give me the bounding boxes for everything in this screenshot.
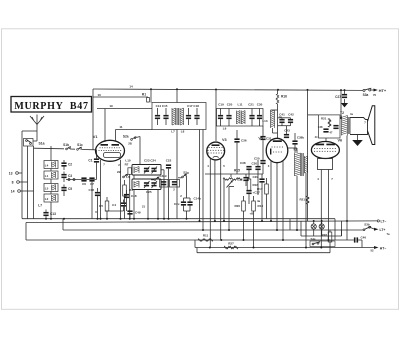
capacitor C30a	[257, 102, 263, 126]
switch S3b	[363, 222, 375, 230]
svg-text:L13: L13	[262, 119, 268, 123]
boxed capacitor C27a	[160, 174, 169, 187]
svg-text:C13: C13	[50, 212, 56, 216]
svg-text:MURPHY B47: MURPHY B47	[14, 101, 88, 112]
svg-text:52: 52	[370, 249, 374, 253]
wire bus 3	[26, 239, 354, 241]
svg-text:S2a: S2a	[123, 135, 129, 139]
wire HT- bus	[195, 240, 374, 248]
svg-text:V6: V6	[338, 139, 343, 143]
capacitor C45	[318, 125, 329, 133]
svg-text:C20: C20	[227, 102, 233, 106]
ground below speaker frame	[352, 135, 363, 147]
svg-text:R20: R20	[234, 204, 240, 208]
svg-text:R7: R7	[125, 163, 129, 167]
svg-text:C42: C42	[288, 113, 294, 117]
svg-text:R26: R26	[321, 233, 327, 237]
wire V5 grid feed	[277, 110, 279, 138]
node HT+ terminal	[373, 88, 387, 97]
svg-text:L4: L4	[45, 163, 49, 167]
svg-text:R17: R17	[257, 187, 263, 191]
svg-text:L2: L2	[45, 197, 49, 201]
wire S1a to antenna	[33, 139, 37, 142]
capacitor C29	[252, 174, 264, 221]
svg-text:C16: C16	[88, 188, 94, 192]
svg-text:R21: R21	[299, 198, 305, 202]
capacitor C16	[88, 188, 100, 219]
wire V6 grid feed	[308, 90, 327, 196]
svg-text:V1: V1	[93, 135, 98, 139]
switch S1b	[63, 143, 71, 150]
wire T2 bottom drop	[346, 136, 348, 222]
svg-text:13: 13	[9, 172, 13, 176]
wire HT top bus	[93, 89, 363, 90]
svg-text:19: 19	[109, 104, 113, 108]
wire T2 top link	[340, 117, 343, 119]
loudspeaker cone	[368, 106, 375, 145]
svg-text:C20: C20	[254, 157, 260, 161]
resistor R21	[299, 196, 308, 221]
tube V5	[258, 137, 287, 163]
switch S1c	[77, 143, 97, 150]
capacitor C49	[127, 210, 140, 218]
coil L2	[44, 194, 58, 202]
svg-text:R21: R21	[321, 117, 327, 121]
boxed capacitor C27b	[170, 180, 180, 192]
node junction dots on top bus	[150, 88, 346, 91]
wire V1 cathode legs	[101, 160, 121, 219]
wire aerial to V1	[34, 148, 76, 149]
transformer T2	[340, 111, 353, 136]
capacitor C17	[186, 108, 191, 125]
wire top bus left branch	[93, 85, 148, 97]
node C14 C15 labels	[156, 104, 168, 108]
svg-text:C6: C6	[82, 182, 86, 186]
wire chassis bus	[22, 218, 335, 220]
svg-text:S1a: S1a	[39, 142, 45, 146]
ground below C27	[341, 99, 348, 107]
switch S2b	[117, 170, 128, 178]
capacitor C15	[163, 108, 168, 125]
wire lamp bus	[301, 221, 342, 236]
IF transformer T3 box	[152, 103, 206, 130]
svg-text:R15: R15	[234, 169, 240, 173]
wire left vertical 2	[27, 146, 29, 219]
terminal 13	[9, 172, 22, 176]
node LT+ terminal	[374, 228, 390, 236]
node L7 label	[38, 204, 42, 208]
svg-text:C21: C21	[248, 102, 254, 106]
tube V6 base	[318, 159, 333, 248]
wire aerial top link	[22, 131, 37, 146]
IF transformer T4 box	[217, 109, 264, 127]
svg-text:T2: T2	[340, 111, 344, 115]
oscillator box L10 C23 C24	[125, 159, 161, 175]
svg-text:R5: R5	[99, 204, 103, 208]
svg-text:C2c: C2c	[174, 202, 180, 206]
svg-text:S3b: S3b	[364, 222, 370, 226]
wire V3 anode feed	[215, 90, 217, 142]
resistor R5	[99, 197, 109, 219]
svg-text:L1: L1	[45, 174, 49, 178]
svg-text:C14 C15: C14 C15	[156, 104, 168, 108]
coil L1	[44, 171, 58, 179]
capacitor C32	[237, 174, 249, 186]
tube V1	[93, 135, 125, 161]
resistor R24	[321, 117, 331, 128]
capacitor C5	[61, 185, 72, 197]
wire antenna stem	[36, 133, 38, 139]
switch S3a	[363, 88, 374, 97]
switch S1a	[24, 139, 45, 147]
svg-text:C5: C5	[68, 187, 72, 191]
svg-text:L9: L9	[223, 127, 227, 131]
capacitor C14b	[184, 197, 202, 219]
wire bus 5	[197, 248, 330, 253]
wire V6 anode to T2	[340, 90, 342, 119]
svg-text:S2g: S2g	[183, 171, 189, 175]
capacitor C41	[279, 113, 285, 124]
wire IFT1 core drop	[176, 89, 178, 218]
wire left vertical 3	[33, 146, 35, 219]
svg-text:C30: C30	[257, 102, 263, 106]
svg-text:R27: R27	[228, 242, 234, 246]
terminal 14	[11, 190, 34, 194]
wire LT+ bus	[63, 219, 363, 230]
tube V3	[207, 138, 227, 160]
wire AVC vertical	[92, 97, 94, 150]
resistor R19	[252, 196, 264, 248]
svg-text:14: 14	[129, 85, 133, 89]
svg-text:C27: C27	[335, 95, 341, 99]
oscillator box L6 C25 C24a	[126, 175, 161, 194]
node bus junctions	[45, 218, 348, 249]
node C17 C18 labels	[187, 104, 199, 108]
capacitor C19	[218, 102, 224, 126]
loudspeaker frame	[350, 118, 368, 135]
resistor R17	[257, 178, 268, 219]
svg-text:S4a: S4a	[311, 237, 316, 241]
capacitor C43	[284, 126, 290, 138]
wire V1 bottom row	[66, 179, 97, 181]
capacitor C21	[248, 102, 254, 126]
capacitor C48	[124, 190, 137, 211]
svg-text:8: 8	[12, 181, 14, 185]
resistor R18	[247, 174, 258, 191]
svg-text:L7: L7	[171, 130, 175, 134]
grid stopper box	[319, 115, 341, 138]
capacitor C31	[260, 126, 271, 155]
capacitor C37	[246, 190, 260, 204]
wire V5 legs	[271, 161, 283, 241]
capacitor C20	[226, 102, 232, 126]
lamp LP1	[311, 221, 316, 236]
transformer T1	[293, 148, 308, 177]
tube V6	[311, 135, 342, 159]
svg-text:V3: V3	[222, 138, 227, 142]
svg-text:21: 21	[142, 205, 146, 209]
capacitor C2c	[174, 198, 186, 211]
svg-text:HT+: HT+	[379, 88, 387, 93]
svg-text:C23 C24: C23 C24	[144, 159, 156, 163]
svg-text:C3: C3	[68, 174, 72, 178]
title box MURPHY B47	[11, 97, 92, 113]
svg-text:R1: R1	[142, 92, 146, 96]
resistor R27	[224, 242, 238, 249]
capacitor C2	[61, 160, 72, 170]
wire IFT1 right drops	[200, 130, 204, 231]
capacitor C1	[88, 150, 99, 180]
svg-text:70: 70	[373, 93, 377, 97]
svg-text:R11: R11	[203, 234, 209, 238]
terminal 8	[12, 181, 28, 185]
capacitor C30b	[251, 160, 260, 195]
svg-text:C46: C46	[361, 235, 367, 239]
potentiometer R15	[223, 169, 242, 188]
svg-text:C41: C41	[279, 113, 285, 117]
svg-text:C4: C4	[112, 203, 116, 207]
switch S2g	[178, 171, 189, 199]
switch S2a	[123, 135, 140, 165]
antenna A1	[30, 115, 44, 134]
svg-text:2B: 2B	[128, 141, 132, 145]
coil L5	[44, 184, 58, 192]
wire pot feed	[205, 174, 263, 177]
coil L13	[262, 110, 277, 133]
svg-text:L10: L10	[125, 159, 131, 163]
capacitor C42	[278, 113, 295, 126]
svg-text:C38b: C38b	[297, 136, 305, 140]
capacitor C46	[347, 221, 366, 248]
wire LT- bus	[26, 220, 386, 240]
node pin numbers	[95, 163, 333, 215]
svg-text:C32: C32	[237, 178, 243, 182]
svg-text:7a: 7a	[386, 232, 390, 236]
svg-text:C43: C43	[284, 129, 290, 133]
svg-text:C22: C22	[166, 158, 172, 162]
resistor R20	[234, 196, 245, 240]
svg-text:C38: C38	[240, 161, 246, 165]
wire V1 grid line	[97, 104, 152, 142]
wire pot drops	[224, 179, 234, 230]
capacitor C38b	[292, 133, 304, 153]
capacitor C27	[335, 90, 347, 99]
capacitor C4	[112, 200, 126, 212]
capacitor C7	[89, 177, 94, 218]
coil L9 winding	[223, 111, 245, 131]
svg-text:S3a: S3a	[363, 93, 369, 97]
capacitor C6a	[81, 177, 86, 186]
coil L7 winding	[172, 108, 178, 125]
svg-text:L11: L11	[237, 102, 242, 106]
svg-text:LT–: LT–	[381, 220, 387, 224]
node +B label	[250, 212, 255, 216]
svg-text:S1b: S1b	[63, 143, 69, 147]
coil L11 winding	[237, 102, 243, 124]
coil L4	[44, 161, 58, 169]
svg-text:HT–: HT–	[380, 246, 387, 250]
svg-text:S1c: S1c	[77, 143, 83, 147]
svg-text:11: 11	[119, 125, 123, 129]
coil L8 winding	[171, 108, 184, 134]
wire coil stack vertical	[50, 146, 52, 219]
svg-text:R4: R4	[129, 188, 133, 192]
svg-text:L8: L8	[181, 130, 185, 134]
node HT- terminal	[370, 246, 386, 253]
svg-text:L6: L6	[126, 175, 130, 179]
capacitor C20b	[254, 155, 266, 174]
resistor R11	[198, 234, 213, 242]
wire V3 legs	[210, 158, 220, 247]
svg-text:R16: R16	[281, 95, 287, 99]
resistor R16	[276, 90, 287, 119]
wire osc box drops	[134, 170, 164, 219]
svg-text:L5: L5	[45, 186, 49, 190]
svg-text:10: 10	[98, 93, 102, 97]
svg-text:C30: C30	[251, 161, 257, 165]
svg-text:C14b: C14b	[194, 197, 202, 201]
svg-text:C48: C48	[318, 125, 323, 129]
svg-text:C29: C29	[252, 175, 258, 179]
capacitor C38	[240, 161, 252, 174]
svg-text:C48d: C48d	[160, 174, 167, 178]
wire V1 anode up	[116, 125, 153, 142]
capacitor C3	[61, 172, 72, 183]
lamp LP2	[319, 221, 324, 236]
svg-text:C17 C18: C17 C18	[187, 104, 199, 108]
wire right drops	[290, 219, 342, 240]
svg-text:C25: C25	[146, 190, 152, 194]
resistor R7	[125, 163, 132, 219]
svg-text:2M: 2M	[117, 170, 122, 174]
svg-text:4a: 4a	[257, 199, 261, 203]
capacitor C13	[43, 210, 56, 219]
svg-text:LT+: LT+	[380, 228, 386, 232]
svg-text:C49: C49	[135, 211, 141, 215]
resistor R1	[142, 89, 151, 102]
switch S4a	[310, 237, 335, 247]
capacitor C14	[155, 108, 160, 125]
svg-text:14: 14	[11, 190, 15, 194]
capacitor C36	[234, 130, 246, 174]
svg-text:R19: R19	[258, 204, 264, 208]
resistor R26	[321, 230, 331, 248]
svg-text:L7: L7	[38, 204, 42, 208]
capacitor C22	[166, 158, 172, 218]
svg-text:C1: C1	[88, 159, 92, 163]
wire osc link	[105, 210, 124, 212]
wire T1 drops	[288, 148, 306, 248]
wire left vertical 1	[21, 146, 23, 219]
svg-text:C2: C2	[68, 163, 72, 167]
resistor R4	[123, 180, 133, 219]
capacitor C44	[330, 125, 339, 135]
svg-text:C36: C36	[241, 139, 247, 143]
svg-text:C19: C19	[218, 102, 224, 106]
svg-text:C31: C31	[266, 137, 272, 141]
capacitor C18	[194, 108, 199, 125]
switch S2f	[151, 177, 159, 181]
